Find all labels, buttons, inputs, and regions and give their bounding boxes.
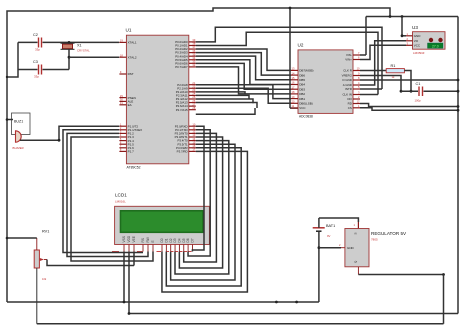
svg-text:RV1: RV1 [42, 230, 49, 234]
svg-text:DO: DO [347, 97, 352, 101]
svg-text:P2.7/A15: P2.7/A15 [176, 108, 188, 112]
svg-text:DB7(MSB): DB7(MSB) [299, 69, 313, 73]
svg-text:C1: C1 [416, 82, 421, 86]
svg-text:VCC: VCC [414, 44, 421, 48]
svg-text:CS: CS [348, 106, 352, 110]
svg-text:VEE: VEE [132, 236, 136, 242]
svg-text:ADC0838: ADC0838 [299, 115, 313, 119]
svg-text:R1: R1 [391, 64, 396, 68]
svg-text:U3: U3 [412, 25, 418, 30]
svg-text:BAT1: BAT1 [326, 224, 335, 228]
svg-text:VSS: VSS [122, 236, 126, 242]
svg-text:EA: EA [128, 103, 132, 107]
svg-text:BUZ1: BUZ1 [14, 120, 23, 124]
svg-text:XTAL1: XTAL1 [128, 41, 137, 45]
svg-text:DB0(LSB): DB0(LSB) [299, 102, 313, 106]
svg-text:D GND: D GND [342, 78, 351, 82]
svg-text:CLK R: CLK R [343, 69, 352, 73]
svg-text:D7: D7 [191, 238, 195, 242]
svg-text:C2: C2 [33, 33, 38, 37]
svg-text:RS: RS [141, 238, 145, 242]
svg-text:P1.7: P1.7 [128, 150, 135, 154]
svg-text:RW: RW [146, 237, 150, 242]
svg-text:DB3: DB3 [299, 87, 305, 91]
svg-text:GND: GND [347, 246, 355, 250]
svg-text:X1: X1 [77, 44, 82, 48]
svg-text:P3.7/RD: P3.7/RD [177, 150, 188, 154]
svg-text:DB5: DB5 [299, 78, 305, 82]
svg-text:LM35DZ: LM35DZ [413, 51, 425, 55]
svg-text:P0.7/AD7: P0.7/AD7 [175, 65, 188, 69]
svg-text:9V: 9V [327, 234, 331, 238]
svg-text:E: E [151, 240, 155, 242]
svg-text:VDD: VDD [127, 235, 131, 242]
svg-text:U2: U2 [298, 43, 304, 48]
svg-text:XTAL2: XTAL2 [128, 55, 137, 59]
svg-text:S: S [354, 232, 358, 234]
svg-text:DB1: DB1 [299, 97, 305, 101]
svg-text:DB6: DB6 [299, 73, 305, 77]
svg-text:7805: 7805 [371, 238, 378, 242]
svg-text:VO: VO [414, 39, 419, 43]
svg-text:DB4: DB4 [299, 83, 305, 87]
svg-text:C3: C3 [33, 60, 38, 64]
svg-text:GND: GND [414, 34, 422, 38]
svg-text:VIN-: VIN- [346, 53, 352, 57]
svg-text:33p: 33p [34, 75, 39, 79]
svg-text:100p: 100p [415, 99, 422, 103]
svg-text:REGULATOR 5V: REGULATOR 5V [371, 231, 407, 236]
svg-text:33p: 33p [35, 48, 40, 52]
svg-text:27.0: 27.0 [432, 44, 439, 48]
svg-text:RST: RST [128, 72, 134, 76]
svg-text:VREF/2: VREF/2 [342, 74, 353, 78]
svg-text:AT89C52: AT89C52 [127, 166, 141, 170]
svg-text:LCD1: LCD1 [115, 193, 127, 198]
svg-text:CLK IN: CLK IN [342, 93, 351, 97]
svg-text:U1: U1 [126, 28, 132, 33]
svg-text:DB2: DB2 [299, 92, 305, 96]
svg-text:BUZZER: BUZZER [13, 146, 24, 150]
svg-text:VCC: VCC [299, 106, 306, 110]
svg-text:LM016L: LM016L [115, 200, 126, 204]
svg-text:CRYSTAL: CRYSTAL [77, 49, 90, 53]
svg-text:VIN+: VIN+ [345, 58, 352, 62]
svg-text:10k: 10k [42, 277, 47, 281]
svg-text:INTR: INTR [345, 87, 352, 91]
